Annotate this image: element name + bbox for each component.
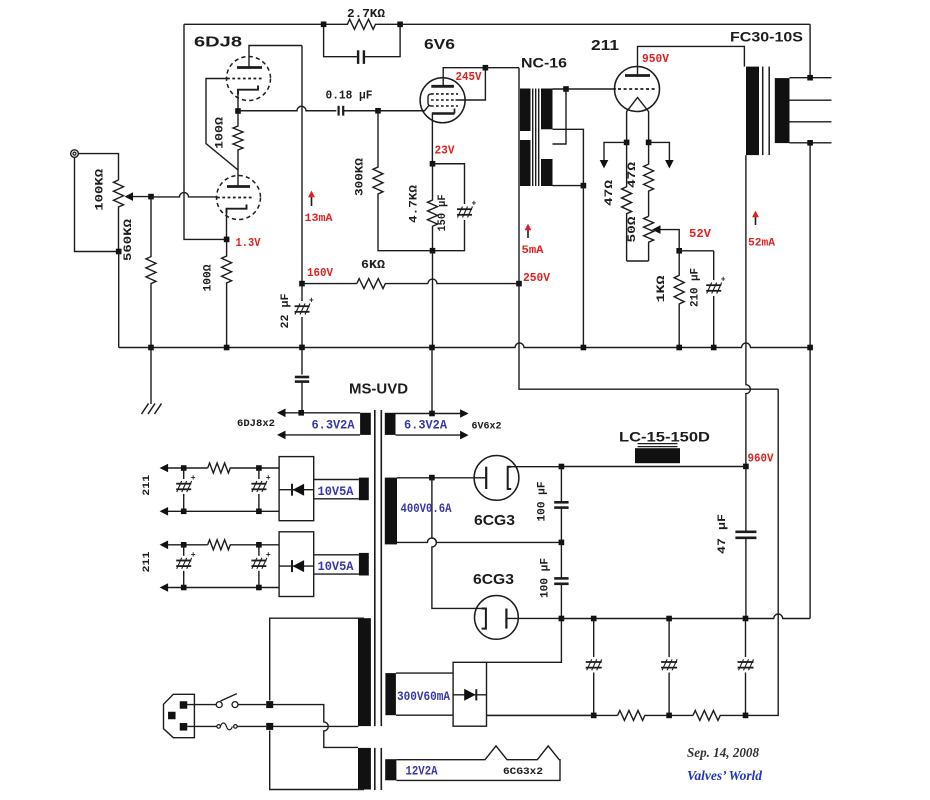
wire feedback takeoff: [809, 24, 811, 77]
capacitor C14: [251, 468, 271, 511]
svg-text:1KΩ: 1KΩ: [656, 275, 668, 303]
svg-text:6V6x2: 6V6x2: [472, 422, 502, 433]
label 52V: [689, 227, 712, 241]
V2 plate: [431, 85, 454, 88]
wire secondary common down: [809, 143, 811, 619]
svg-text:300V60mA: 300V60mA: [397, 690, 450, 704]
node secondary top junction: [563, 86, 569, 92]
wire 400V bottom lead (hop over doubler column): [397, 538, 562, 543]
label 6V6: [424, 36, 455, 53]
svg-text:100Ω: 100Ω: [203, 264, 215, 291]
svg-text:6CG3x2: 6CG3x2: [503, 767, 543, 778]
resistor R5 300K&#937;: [373, 111, 430, 251]
FC30 primary winding: [746, 67, 759, 156]
wire fuse to terminal: [237, 725, 266, 727]
capacitor C12 filter: [738, 619, 754, 716]
node secondary bottom junction: [581, 183, 587, 189]
resistor R3 100&#937; (SRPP): [233, 111, 243, 170]
resistor R11 divider: [618, 710, 693, 720]
label MS-UVD: [349, 381, 408, 398]
label 47 &#181;F: [717, 514, 729, 554]
label 6V6x2: [472, 422, 502, 433]
svg-text:6DJ8x2: 6DJ8x2: [237, 419, 275, 430]
wire V2 plate node to NC-16: [485, 67, 519, 69]
V1a cathode: [238, 86, 258, 95]
svg-text:211: 211: [142, 475, 153, 496]
FC30 secondary tap 1: [790, 77, 832, 79]
filament feed arrow right: [649, 142, 674, 168]
capacitor C4 22&#181;F: [295, 284, 315, 348]
wire ground bus (hop over divider riser): [561, 614, 810, 619]
FC30 secondary tap 4: [790, 142, 832, 144]
input jack J1: [71, 150, 79, 158]
wire V1a grid tie to V1b plate: [206, 79, 238, 187]
winding MS-UVD primary: [358, 618, 371, 789]
resistor R6 4.7K&#937;: [428, 164, 438, 251]
node feedback-left junction: [321, 22, 327, 28]
svg-text:6CG3: 6CG3: [473, 571, 514, 588]
winding 300V60mA: [385, 673, 453, 715]
node b2 c2 bottom: [256, 585, 262, 591]
label 100 &#181;F (upper): [537, 482, 549, 522]
svg-text:150 μF: 150 μF: [437, 195, 449, 232]
node filament left: [624, 140, 630, 146]
node ground bus left: [559, 616, 565, 622]
resistor R_fb 2.7K&#937; in feedback rail: [324, 19, 401, 29]
svg-text:4.7KΩ: 4.7KΩ: [409, 185, 421, 223]
svg-text:100 μF: 100 μF: [540, 558, 552, 598]
node 1K-ground junction: [676, 345, 682, 351]
wire primary outline: [270, 618, 364, 789]
node 400V-V4 junction: [429, 475, 435, 481]
triode V1b 6DJ8 envelope: [217, 176, 261, 220]
fuse F1: [217, 723, 237, 730]
V2 cathode: [432, 109, 455, 114]
AC plug P1: [164, 694, 195, 737]
text date: [687, 745, 759, 760]
V2 screen-plate strap: [456, 68, 486, 100]
NC-16 primary winding: [520, 89, 531, 187]
label 12V2A: [406, 765, 438, 779]
label 6K&#937;: [361, 258, 385, 272]
svg-text:+: +: [472, 200, 477, 209]
node pot-bottom junction: [116, 249, 122, 255]
capacitor C10 filter: [586, 619, 602, 716]
node 160V: [299, 281, 305, 287]
label 5mA: [522, 245, 544, 257]
svg-text:5mA: 5mA: [522, 245, 544, 257]
wire 250V feed from divider: [519, 284, 778, 390]
node NC-16 ground junction: [581, 345, 587, 351]
label 47&#937; (left): [604, 179, 616, 206]
svg-text:211: 211: [591, 37, 619, 54]
label 300V60mA: [397, 690, 450, 704]
svg-text:245V: 245V: [456, 70, 483, 84]
wire rectifier output to rail: [487, 714, 594, 716]
node V4-out junction: [559, 464, 565, 470]
power switch S1: [216, 694, 238, 708]
capacitor C9 100&#181;F (lower): [554, 542, 568, 618]
wire V5 plate to ground bus: [506, 617, 561, 619]
winding 10V5A #1: [314, 478, 369, 501]
V3 filament: [627, 98, 649, 143]
node 210uF-ground junction: [711, 345, 717, 351]
label 210 &#181;F: [690, 268, 702, 307]
V3 grid (dashed): [618, 88, 656, 90]
svg-text:211: 211: [142, 552, 153, 573]
label 50&#937;: [627, 216, 639, 243]
wire feedback rail right segment: [400, 23, 810, 25]
wire bias to 210uF: [679, 250, 714, 252]
svg-text:MS-UVD: MS-UVD: [349, 381, 408, 398]
svg-text:6DJ8: 6DJ8: [194, 34, 242, 51]
wire ground rail: [119, 343, 810, 348]
node heater-cap junction: [298, 410, 304, 416]
resistor R4 100&#937; (V1b cathode): [222, 239, 232, 347]
label 6CG3 (upper): [474, 512, 515, 529]
label 52mA: [748, 238, 775, 250]
svg-text:Sep. 14, 2008: Sep. 14, 2008: [687, 745, 759, 760]
node 560K-ground junction: [148, 345, 154, 351]
wire V2 cathode to 23V node: [431, 114, 433, 164]
wire jack to volume pot: [78, 154, 118, 180]
node b1 c1 bottom: [181, 509, 187, 515]
resistor R2 560K&#937;: [146, 197, 156, 348]
wire ground to 6V6 heater winding: [431, 348, 433, 414]
label 13mA: [305, 213, 333, 225]
svg-text:300KΩ: 300KΩ: [355, 158, 367, 196]
triode V1a 6DJ8 envelope: [227, 57, 271, 101]
resistor R7 6K&#937; (hop over 4.7K line): [302, 279, 519, 289]
V2 grid bracket: [428, 94, 431, 106]
potentiometer VR2 50&#937; hum balance: [627, 216, 680, 261]
svg-text:160V: 160V: [307, 266, 334, 280]
label FC30-10S: [730, 29, 803, 45]
svg-text:47Ω: 47Ω: [604, 179, 616, 206]
node V2 cathode network bottom: [430, 248, 436, 254]
label 960V: [748, 452, 775, 466]
label 6DJ8: [194, 34, 242, 51]
wire V2 plate to plate node: [443, 68, 485, 87]
node secondary common: [807, 140, 813, 146]
V4 plate: [508, 467, 512, 489]
label 150 &#181;F: [437, 195, 449, 232]
label 100K&#937;: [95, 168, 107, 210]
winding 6.3V2A (6V6 heaters): [385, 409, 469, 439]
wire NC-16 primary lead: [518, 68, 520, 284]
wire NC-16 secondary to 211 grid: [553, 88, 617, 90]
wire V1a cathode to output node: [237, 92, 239, 111]
filament feed arrow left: [600, 142, 627, 168]
capacitor C5 heater bias: [295, 348, 309, 413]
label 0.18 &#181;F: [326, 89, 373, 103]
label 1.3V: [236, 236, 262, 250]
node 6V6 grid node: [375, 108, 381, 114]
wire doubler column (hop over 400V bottom lead): [432, 478, 482, 609]
node V2 plate node 245V: [483, 65, 489, 71]
svg-text:10V5A: 10V5A: [318, 485, 354, 499]
wire AC neutral inner: [270, 725, 359, 727]
wire secondary tie bottom: [553, 129, 584, 185]
node heater-ground junction: [429, 411, 435, 417]
node bias junction: [676, 248, 682, 254]
capacitor C16: [251, 545, 271, 588]
label 560K&#937;: [123, 219, 135, 261]
wire plug to switch: [187, 704, 216, 706]
svg-text:210 μF: 210 μF: [690, 268, 702, 307]
wire 160V riser (B+ for SRPP): [301, 46, 303, 284]
resistor R12 divider: [693, 710, 746, 720]
label 10V5A #2: [318, 560, 354, 574]
capacitor C6 210&#181;F: [706, 251, 726, 348]
svg-text:+: +: [266, 474, 271, 483]
node secondary-ground-rail junction: [807, 345, 813, 351]
label 100 &#181;F (lower): [540, 558, 552, 598]
rectifier V5 6CG3 envelope: [475, 596, 519, 640]
wire pot bottom to ground rail: [118, 252, 120, 348]
label 211: [591, 37, 619, 54]
V1b plate: [227, 185, 250, 188]
NC-16 core: [533, 89, 539, 187]
wire 400V top lead to V4: [397, 477, 486, 479]
AC terminal neutral: [266, 723, 273, 730]
node filament right: [646, 140, 652, 146]
node b2 c1 top: [181, 542, 187, 548]
svg-text:100 μF: 100 μF: [537, 482, 549, 522]
label 250V: [523, 271, 551, 285]
winding 6.3V2A (6DJ8 heaters): [277, 409, 371, 440]
svg-text:2.7KΩ: 2.7KΩ: [347, 7, 385, 21]
V1a plate: [237, 66, 262, 69]
label 22 &#181;F: [280, 294, 292, 329]
wire secondary tie top: [553, 89, 567, 144]
label 1K&#937;: [656, 275, 668, 303]
svg-text:6.3V2A: 6.3V2A: [404, 419, 447, 433]
label 10V5A #1: [318, 485, 354, 499]
label LC-15-150D: [619, 429, 710, 445]
triode V3 211 envelope: [615, 67, 660, 112]
wire plug to fuse: [187, 725, 217, 727]
FC30 core: [763, 67, 770, 156]
label 47&#937; (right): [627, 161, 639, 188]
node rail junction 1: [591, 713, 597, 719]
svg-text:52V: 52V: [689, 227, 712, 241]
wire feedback rail left segment: [184, 23, 324, 25]
capacitor C8 100&#181;F (upper): [554, 467, 568, 543]
node 23V: [430, 161, 436, 167]
svg-text:100KΩ: 100KΩ: [95, 168, 107, 210]
capacitor C7 47&#181;F: [735, 466, 756, 618]
wire rectifier negative tie: [487, 619, 562, 663]
wire HT line: [561, 466, 746, 468]
winding 400V0.6A: [385, 478, 397, 545]
wire V1b cathode to 1.3V node: [226, 211, 228, 239]
label 6.3V2A (left): [312, 419, 355, 433]
label 2.7K&#937;: [347, 7, 385, 21]
wire V4 plate out: [508, 466, 562, 468]
rectifier bridge B1: [279, 457, 314, 521]
wire DC- rail #1: [167, 510, 279, 512]
svg-text:400V0.6A: 400V0.6A: [401, 502, 452, 516]
label 160V: [307, 266, 334, 280]
wire bottom supply rail: [487, 714, 618, 716]
AC terminal hot: [266, 701, 273, 708]
wire V1a plate to 160V riser: [249, 46, 302, 68]
wire to 6V6 grid: [378, 106, 429, 111]
label 100&#937; (V1b cathode): [203, 264, 215, 291]
choke LC-15-150D: [635, 444, 680, 464]
wire DC+ rail #2: [167, 540, 279, 550]
label 300K&#937;: [355, 158, 367, 196]
label 211 (block1): [142, 475, 153, 496]
wire wiper to V1b grid (hop over feedback drop): [151, 192, 217, 197]
label 950V: [642, 52, 670, 66]
wire cathode network to ground rail: [432, 251, 434, 348]
wire DC+ rail #1: [167, 463, 279, 473]
label 6DJ8x2: [237, 419, 275, 430]
FC30 secondary tap 3: [790, 121, 832, 123]
capacitor C15: [176, 545, 196, 588]
svg-text:+: +: [191, 551, 196, 560]
svg-text:0.18 μF: 0.18 μF: [326, 89, 373, 103]
capacitor C_fb (2.7K bypass): [324, 24, 401, 64]
node filter1 top: [591, 616, 597, 622]
label 23V: [435, 144, 456, 158]
svg-text:FC30-10S: FC30-10S: [730, 29, 803, 45]
winding 10V5A #2: [314, 553, 369, 576]
red arrow 13mA: [308, 191, 315, 207]
svg-text:950V: 950V: [642, 52, 670, 66]
svg-text:6.3V2A: 6.3V2A: [312, 419, 355, 433]
label 211 (block2): [142, 552, 153, 573]
svg-text:+: +: [266, 551, 271, 560]
capacitor C2 0.18&#181;F coupling: [339, 106, 378, 116]
svg-text:100Ω: 100Ω: [215, 117, 227, 149]
arrow 211 filament + #1: [160, 464, 169, 473]
label 6CG3x2: [503, 767, 543, 778]
arrow 211 filament - #2: [160, 583, 169, 592]
V5 plate: [505, 609, 507, 629]
wire feedback to V1b cathode: [184, 24, 224, 239]
ground symbol: [142, 348, 162, 415]
capacitor C11 filter: [661, 619, 677, 716]
label 400V0.6A: [401, 502, 452, 516]
node feedback tap: [807, 75, 813, 81]
node rail junction 2: [666, 713, 672, 719]
node b1 c1 top: [181, 465, 187, 471]
node b2 c1 bottom: [181, 585, 187, 591]
wire V3 plate to FC30: [638, 46, 745, 75]
resistor R9 47&#937; (right): [644, 142, 654, 216]
NC-16 secondary winding: [541, 89, 553, 187]
rectifier V4 6CG3 envelope: [474, 456, 519, 501]
node b1 c2 bottom: [256, 509, 262, 515]
svg-text:6CG3: 6CG3: [474, 512, 515, 529]
FC30 secondary winding: [775, 78, 790, 143]
V5 cathode: [482, 609, 486, 629]
label 6.3V2A (right): [404, 419, 447, 433]
svg-text:250V: 250V: [523, 271, 551, 285]
svg-text:6KΩ: 6KΩ: [361, 258, 385, 272]
V1a grid (dashed): [227, 78, 263, 80]
node 100uF junction: [559, 540, 565, 546]
V3 plate: [625, 74, 650, 77]
svg-text:Valves’ World: Valves’ World: [687, 768, 762, 783]
node R4-ground junction: [224, 345, 230, 351]
wire jack sleeve to ground: [75, 157, 117, 251]
winding 12V2A: [385, 759, 396, 780]
wire divider riser to 250V feed: [746, 389, 779, 715]
V1b cathode: [227, 205, 247, 214]
svg-text:960V: 960V: [748, 452, 775, 466]
svg-text:560KΩ: 560KΩ: [123, 219, 135, 261]
label NC-16: [521, 55, 567, 71]
svg-text:NC-16: NC-16: [521, 55, 567, 71]
node 1.3V: [224, 237, 230, 243]
V4 cathode: [485, 467, 487, 489]
wire V1a out to coupling cap (hop over riser): [238, 106, 336, 111]
arrow 211 filament + #2: [160, 541, 169, 550]
label 4.7K&#937;: [409, 185, 421, 223]
svg-text:47Ω: 47Ω: [627, 161, 639, 188]
svg-text:LC-15-150D: LC-15-150D: [619, 429, 710, 445]
pentode V2 6V6 envelope: [420, 78, 465, 123]
wire DC- rail #2: [167, 587, 279, 589]
V1b grid (dashed): [217, 197, 252, 199]
wire B+ riser to FC30 (hop over 250V feed): [746, 155, 751, 466]
FC30 secondary tap 2: [790, 99, 832, 101]
resistor R8 47&#937; (left): [622, 142, 632, 261]
node V1a cathode output: [235, 108, 241, 114]
V2 grid g2 screen (dashed): [431, 99, 456, 101]
label 100&#937; (SRPP): [215, 117, 227, 149]
node 4.7K-ground junction: [429, 345, 435, 351]
MS-UVD core: [375, 410, 382, 790]
red arrow 5mA: [525, 224, 532, 239]
node rail junction 3: [743, 713, 749, 719]
V2 grid g1 (dashed): [431, 93, 458, 95]
node filter3 top: [743, 616, 749, 622]
svg-text:12V2A: 12V2A: [406, 765, 438, 779]
node wiper junction: [148, 194, 154, 200]
node b2 c2 top: [256, 542, 262, 548]
node 22uF-ground junction: [299, 345, 305, 351]
svg-text:1.3V: 1.3V: [236, 236, 262, 250]
svg-text:6V6: 6V6: [424, 36, 455, 53]
svg-text:+: +: [721, 276, 726, 285]
svg-text:52mA: 52mA: [748, 238, 775, 250]
svg-text:+: +: [309, 297, 314, 306]
rectifier D1 box: [453, 662, 486, 726]
svg-text:13mA: 13mA: [305, 213, 333, 225]
label 6CG3 (lower): [473, 571, 514, 588]
arrow 211 filament - #1: [160, 507, 169, 516]
wire 6CG3 heater loop: [396, 746, 560, 781]
V2 grid g3 (dashed): [431, 105, 458, 107]
svg-text:47 μF: 47 μF: [717, 514, 729, 554]
resistor R10 1K&#937;: [674, 251, 684, 348]
node 960V: [743, 464, 749, 470]
wire AC hot inner (hop over neutral): [270, 705, 358, 748]
capacitor C3 150&#181;F: [433, 164, 477, 251]
svg-text:10V5A: 10V5A: [318, 560, 354, 574]
capacitor C13: [176, 468, 196, 511]
svg-text:22 μF: 22 μF: [280, 294, 292, 329]
red arrow 52mA: [752, 211, 759, 226]
svg-text:23V: 23V: [435, 144, 456, 158]
node filter2 top: [666, 616, 672, 622]
potentiometer VR1 100K&#937;: [114, 180, 152, 252]
